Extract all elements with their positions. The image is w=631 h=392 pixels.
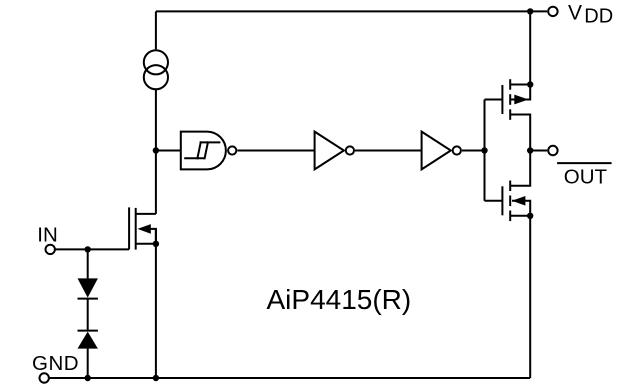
svg-text:V: V [568,1,582,24]
node dot Q3 source-GND [153,375,159,381]
wire Q2 drain to OUT [510,151,530,186]
wire OUT stub [530,150,547,152]
wire common gate vertical [484,100,486,201]
wire schmitt input [156,150,181,152]
diode D1 cathode bar [78,298,98,300]
wire Q1 drain to OUT [510,115,530,151]
svg-text:GND: GND [32,352,79,375]
transistor Q1 pmos body arrow [514,95,528,105]
inverter U3 bubble [453,146,461,154]
wire top border [156,10,530,12]
diode D2 triangle [78,332,98,349]
schmitt trigger U1 body [181,132,226,170]
transistor Q3 nmos body arrow [138,224,151,234]
node dot Q2 source/body [527,213,533,219]
wire left rail upper [155,11,157,49]
node dot IN junction [85,246,91,252]
inverter U2 bubble [346,146,354,154]
node dot diode-GND [85,375,91,381]
transistor Q3 channel [135,208,137,250]
wire between diodes [87,299,89,331]
inverter U3 [422,132,451,170]
terminal VDD circle [548,7,557,16]
wire left rail mid [155,89,157,214]
label OUT overline [557,162,612,164]
node dot VDD corner [527,8,533,14]
wire Q1 body line [510,85,530,100]
transistor Q2 nmos channel bars [509,181,511,192]
node dot left rail / schmitt input [153,147,159,153]
node dot Q3 body-source [153,241,159,247]
svg-text:IN: IN [37,223,58,246]
diode D1 triangle [78,278,98,297]
wire IN lead [55,248,129,250]
transistor Q1 pmos channel bars [509,79,511,90]
wire VDD stub [530,10,547,12]
transistor Q3 nmos gate plate [128,207,130,249]
svg-text:DD: DD [584,6,613,28]
schmitt output bubble [228,146,236,154]
current source I1 [144,50,168,74]
wire right rail top [529,11,531,84]
node dot Q1 source/body [527,81,533,87]
inverter U2 [315,132,344,170]
wire Q3 body lead [150,229,156,244]
wire diode branch upper [87,249,89,278]
diode D2 cathode bar [78,330,98,332]
wire left rail lower [155,229,157,378]
terminal OUT circle [548,146,557,155]
wire bottom border [49,377,530,379]
wire schmitt to inverter1 [237,150,314,152]
wire Q1 source to VDD rail [510,84,530,86]
wire inverter1 to inverter2 [355,150,422,152]
terminal IN circle [46,245,55,254]
node dot OUT [527,147,533,153]
wire Q3 source lead [136,243,156,245]
node dot gate net [481,147,487,153]
svg-text:OUT: OUT [564,165,608,188]
wire Q2 source down [510,216,530,378]
transistor Q2 nmos body arrow [512,196,526,206]
schmitt hysteresis symbol [184,157,204,159]
transistor Q2 nmos gate plate [501,186,503,215]
wire pmos gate lead [485,99,503,101]
wire Q2 body line [512,201,530,216]
transistor Q1 pmos gate plate [501,85,503,114]
terminal GND circle [40,373,49,382]
wire diode branch lower [87,349,89,378]
svg-text:AiP4415(R): AiP4415(R) [267,284,412,315]
wire nmos gate lead [485,200,503,202]
wire inverter2 to gate node [462,150,485,152]
wire Q3 drain lead [136,213,156,215]
